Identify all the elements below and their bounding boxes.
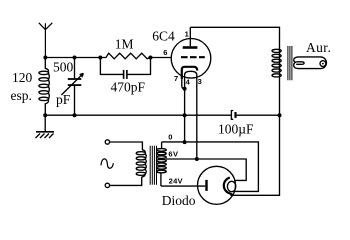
antenna xyxy=(39,23,53,58)
svg-text:Aur.: Aur. xyxy=(306,40,331,55)
wire grid lead xyxy=(151,57,172,59)
svg-text:6C4: 6C4 xyxy=(152,28,175,43)
svg-text:3: 3 xyxy=(198,77,202,86)
svg-text:7: 7 xyxy=(174,74,178,83)
node (pin4 on ground rail) xyxy=(183,113,187,117)
variable capacitor C1 500pF xyxy=(61,58,83,116)
svg-text:1M: 1M xyxy=(115,37,134,52)
node (B+ / 100uF) xyxy=(278,113,282,117)
ground xyxy=(36,115,55,138)
transformer T1 core xyxy=(288,46,292,80)
transformer T1 primary xyxy=(272,49,281,77)
node A (antenna junction) xyxy=(43,56,47,60)
AC source xyxy=(101,159,113,168)
node (ground junction) xyxy=(43,113,47,117)
transformer T2 core xyxy=(150,146,156,185)
wire pin3 lead down xyxy=(196,79,198,160)
tube V1 6C4 envelope xyxy=(171,39,211,79)
capacitor C3 100uF xyxy=(231,111,279,120)
node (pin4 on 0 net) xyxy=(183,140,187,144)
transformer T2 secondary xyxy=(157,142,167,186)
svg-text:24V: 24V xyxy=(169,177,183,186)
svg-text:100µF: 100µF xyxy=(218,122,254,137)
svg-text:esp.: esp. xyxy=(11,88,32,103)
wire plug bottom xyxy=(110,175,146,185)
svg-text:120: 120 xyxy=(12,70,33,85)
node (C1 bottom) xyxy=(73,113,77,117)
node (R1 right) xyxy=(149,56,153,60)
svg-text:6: 6 xyxy=(163,48,167,57)
V1 heater xyxy=(185,71,197,78)
svg-text:4: 4 xyxy=(186,78,191,87)
V1 plate xyxy=(183,27,198,47)
transformer T2 primary terminal bottom xyxy=(105,183,109,187)
node (pin3 on 6V net) xyxy=(195,157,199,161)
svg-text:500: 500 xyxy=(53,59,74,74)
svg-text:6V: 6V xyxy=(168,150,178,159)
transformer T2 primary terminal top xyxy=(105,140,109,144)
transformer T2 primary xyxy=(136,152,146,176)
node (R1 left) xyxy=(98,56,102,60)
svg-text:470pF: 470pF xyxy=(111,79,146,94)
svg-text:Diodo: Diodo xyxy=(162,193,196,208)
wire 6V net xyxy=(166,159,246,180)
capacitor C2 470pF xyxy=(100,58,150,79)
svg-text:pF: pF xyxy=(56,92,71,107)
node (variable cap top) xyxy=(73,56,77,60)
wire cathode lead to pin4 xyxy=(182,79,185,89)
V2 heater xyxy=(227,181,235,191)
svg-text:1: 1 xyxy=(185,30,189,39)
inductor L1 120 esp. xyxy=(39,58,49,116)
svg-text:0: 0 xyxy=(168,133,172,142)
V1 grid (dashes) xyxy=(181,56,205,58)
wire B+ down xyxy=(231,115,280,195)
V2 plate xyxy=(205,180,207,191)
wire 24V net xyxy=(161,185,205,187)
wire pin4 lead down xyxy=(184,79,186,143)
tube V2 diode envelope xyxy=(198,166,236,204)
wire ground rail xyxy=(45,114,231,116)
node (cathode-heater junction) xyxy=(183,87,187,91)
wire top rail xyxy=(45,57,100,59)
wire plug top xyxy=(110,142,146,152)
V2 cathode xyxy=(224,178,233,196)
V1 cathode xyxy=(182,67,197,79)
resistor R1 1M xyxy=(100,53,150,59)
wire 0 net xyxy=(162,142,259,192)
earphone Aur. xyxy=(294,57,327,69)
wire plate to output transformer xyxy=(190,27,279,115)
